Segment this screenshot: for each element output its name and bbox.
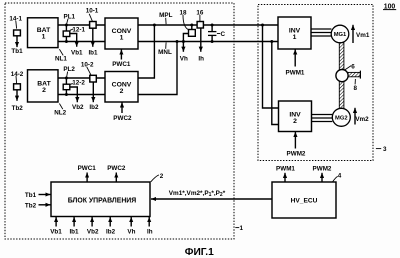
pointer line 18 xyxy=(183,15,188,30)
svg-text:4: 4 xyxy=(338,173,342,180)
junction node NL1/12-1 xyxy=(65,40,68,43)
pointer tick 12-1 xyxy=(70,29,73,30)
svg-text:PWM2: PWM2 xyxy=(313,166,332,173)
wire MPL xyxy=(138,24,278,26)
wire CONV2 positive output to MPL xyxy=(138,25,154,78)
svg-text:PWM1: PWM1 xyxy=(276,166,295,173)
pointer line PL2 xyxy=(67,72,68,78)
svg-text:C: C xyxy=(221,31,226,38)
arrow PWC2 into CONV2 xyxy=(121,102,123,113)
svg-text:ФИГ.1: ФИГ.1 xyxy=(185,247,214,258)
svg-text:PL1: PL1 xyxy=(64,14,76,21)
svg-text:NL2: NL2 xyxy=(54,109,66,116)
svg-text:2: 2 xyxy=(120,88,124,95)
arrow Vh into control unit xyxy=(130,217,132,227)
svg-text:PWC2: PWC2 xyxy=(107,165,126,172)
arrow Ib2 sensor output xyxy=(92,82,94,102)
svg-text:1: 1 xyxy=(240,225,244,232)
pointer line NL1 xyxy=(59,49,63,55)
battery BAT2 xyxy=(28,70,59,102)
pointer line 16 xyxy=(199,15,201,21)
svg-text:16: 16 xyxy=(196,10,204,17)
arrow Vb2 sensor output xyxy=(70,87,78,102)
relay 12-2 xyxy=(63,78,70,95)
pointer line PL1 xyxy=(67,19,68,24)
svg-text:PWM1: PWM1 xyxy=(286,69,305,76)
svg-text:PWC1: PWC1 xyxy=(112,61,131,68)
svg-text:2: 2 xyxy=(293,118,297,125)
pointer line NL2 xyxy=(59,104,62,110)
converter CONV1 xyxy=(105,18,138,49)
svg-text:Vm1*,Vm2*,P1*,P2*: Vm1*,Vm2*,P1*,P2* xyxy=(169,190,226,198)
pointer line 2 xyxy=(151,175,159,182)
svg-text:Vm1: Vm1 xyxy=(356,32,370,39)
junction node MNL/sensor18 xyxy=(182,40,185,43)
junction node NL2/12-2 xyxy=(65,93,68,96)
svg-text:100: 100 xyxy=(384,4,396,11)
converter CONV2 xyxy=(105,72,138,103)
arrow PWM1 out of HV ECU xyxy=(284,173,286,182)
svg-text:MPL: MPL xyxy=(159,12,172,19)
wire three-phase INV1 to MG1 xyxy=(311,29,331,36)
svg-text:Vh: Vh xyxy=(180,56,188,63)
arrow PWM2 out of HV ECU xyxy=(321,173,323,182)
svg-text:18: 18 xyxy=(179,10,187,17)
pointer line 6 xyxy=(345,66,351,70)
arrow Vh sensor output xyxy=(182,42,184,52)
arrow Vb1 into control unit xyxy=(55,217,57,227)
pointer line 8 xyxy=(354,79,356,84)
arrow Tb2 into control unit xyxy=(39,204,51,206)
arrow Ib1 into control unit xyxy=(73,217,75,227)
svg-text:3: 3 xyxy=(383,146,387,153)
pointer tick 12-2 xyxy=(70,83,73,84)
inverter INV1 xyxy=(278,17,311,49)
pointer line 10-1 xyxy=(89,14,92,21)
arrow Vm2 sensor output xyxy=(354,108,356,125)
arrow Ib2 into control unit xyxy=(109,217,111,227)
pointer tick 3 xyxy=(376,148,381,150)
relay 12-1 xyxy=(63,25,70,42)
svg-text:PWM2: PWM2 xyxy=(287,151,306,158)
wire MNL branch to INV2 xyxy=(272,42,279,125)
current sensor 16 xyxy=(197,22,203,29)
svg-text:1: 1 xyxy=(120,35,124,42)
svg-text:Ib2: Ib2 xyxy=(89,104,99,111)
svg-text:Ib1: Ib1 xyxy=(69,229,79,236)
arrow Vb1 sensor output xyxy=(70,34,77,47)
junction node MPL/capacitor xyxy=(211,24,214,27)
svg-text:14-1: 14-1 xyxy=(9,16,22,23)
junction node PL2/12-2 xyxy=(65,77,68,80)
wire NL2 xyxy=(59,94,106,96)
svg-text:Ih: Ih xyxy=(198,56,204,63)
pointer line MPL xyxy=(165,18,167,24)
arrow PWC1 into CONV1 xyxy=(120,50,122,60)
dashed drive unit boundary box 3 xyxy=(258,5,373,161)
junction node MNL/CONV2 xyxy=(176,40,179,43)
temperature sensor 14-1 xyxy=(14,30,21,36)
arrow PWM1 into INV1 xyxy=(294,49,296,66)
dashed system boundary box 1 xyxy=(5,3,234,239)
arrow Vb2 into control unit xyxy=(91,217,93,227)
arrow PWM2 into INV2 xyxy=(294,132,296,149)
svg-text:12-1: 12-1 xyxy=(72,26,85,33)
svg-text:2: 2 xyxy=(160,173,164,180)
arrow Ih into control unit xyxy=(148,217,150,227)
pointer tick 1 xyxy=(235,227,239,229)
svg-text:10-1: 10-1 xyxy=(86,7,99,14)
svg-text:1: 1 xyxy=(42,33,46,40)
svg-text:MNL: MNL xyxy=(158,49,172,56)
junction node MNL/INV2 xyxy=(270,40,273,43)
current sensor 10-2 xyxy=(90,75,97,82)
svg-text:6: 6 xyxy=(351,64,355,71)
wire MPL branch to INV2 xyxy=(263,25,279,108)
svg-text:Tb2: Tb2 xyxy=(12,105,24,112)
arrow Tb1 into control unit xyxy=(39,194,51,196)
svg-text:NL1: NL1 xyxy=(55,56,67,63)
svg-text:БЛОК УПРАВЛЕНИЯ: БЛОК УПРАВЛЕНИЯ xyxy=(68,197,136,204)
svg-text:Vb2: Vb2 xyxy=(72,104,84,111)
pointer line 4 xyxy=(332,176,337,182)
svg-text:14-2: 14-2 xyxy=(11,71,24,78)
arrow command values from HV ECU to control unit xyxy=(151,198,272,200)
svg-text:10-2: 10-2 xyxy=(81,62,94,69)
pointer line MNL xyxy=(165,42,167,48)
svg-text:2: 2 xyxy=(42,87,46,94)
wire PL1 xyxy=(59,24,106,26)
svg-text:HV_ECU: HV_ECU xyxy=(291,197,318,204)
svg-text:MG1: MG1 xyxy=(334,32,347,38)
junction node MPL/CONV2 xyxy=(153,24,156,27)
svg-text:Vh: Vh xyxy=(127,229,135,236)
arrow PWC1 out of control unit xyxy=(86,173,88,183)
svg-text:Ib1: Ib1 xyxy=(88,49,98,56)
svg-text:PWC1: PWC1 xyxy=(78,165,97,172)
wire CONV2 negative output to MNL xyxy=(138,42,177,95)
arrow Tb1 sensor output xyxy=(16,36,18,47)
svg-text:Tb2: Tb2 xyxy=(25,202,37,209)
pointer line 10-2 xyxy=(87,67,91,75)
svg-text:Vb2: Vb2 xyxy=(87,229,99,236)
svg-text:PWC2: PWC2 xyxy=(113,115,132,122)
svg-text:12-2: 12-2 xyxy=(72,80,85,87)
junction node MPL/INV2 xyxy=(261,24,264,27)
shaft from MG1 to gear xyxy=(339,43,344,109)
svg-text:Ih: Ih xyxy=(147,229,153,236)
battery BAT1 xyxy=(28,18,59,48)
pointer tick C xyxy=(217,33,220,35)
svg-text:PL2: PL2 xyxy=(63,66,75,73)
arrow PWC2 out of control unit xyxy=(115,173,117,183)
underline of 100 xyxy=(383,9,396,11)
svg-text:Vb1: Vb1 xyxy=(50,229,62,236)
power split gear 6 xyxy=(336,70,348,82)
pointer line 14-2 xyxy=(15,76,18,84)
svg-text:Ib2: Ib2 xyxy=(106,229,116,236)
current sensor 10-1 xyxy=(90,22,97,29)
svg-text:8: 8 xyxy=(353,85,357,92)
wire PL2 xyxy=(59,77,106,79)
inverter INV2 xyxy=(279,101,312,132)
junction node MNL/capacitor xyxy=(211,40,214,43)
svg-text:Vm2: Vm2 xyxy=(355,116,369,123)
capacitor C xyxy=(208,25,216,42)
motor generator MG2 xyxy=(332,108,350,126)
svg-text:Vb1: Vb1 xyxy=(71,49,83,56)
motor generator MG1 xyxy=(331,25,349,43)
arrow Tb2 sensor output xyxy=(16,90,18,101)
svg-text:1: 1 xyxy=(293,34,297,41)
wire three-phase INV2 to MG2 xyxy=(312,115,333,122)
svg-text:MG2: MG2 xyxy=(335,115,348,121)
voltage sensor 18 xyxy=(183,25,195,42)
svg-text:Tb1: Tb1 xyxy=(25,192,37,199)
wire MNL xyxy=(138,41,278,43)
control unit 2 xyxy=(51,182,150,217)
arrow Vm1 sensor output xyxy=(352,25,354,43)
junction node MPL/sensor18 xyxy=(190,24,193,27)
arrow Ih sensor output xyxy=(200,28,202,52)
svg-text:Tb1: Tb1 xyxy=(11,48,23,55)
junction node PL1/12-1 xyxy=(65,24,68,27)
HV ECU 4 xyxy=(272,182,336,218)
output shaft 8 xyxy=(348,72,360,76)
arrow Ib1 sensor output xyxy=(92,28,94,47)
wire NL1 xyxy=(59,41,106,43)
pointer line 14-1 xyxy=(15,21,18,29)
temperature sensor 14-2 xyxy=(14,84,21,90)
